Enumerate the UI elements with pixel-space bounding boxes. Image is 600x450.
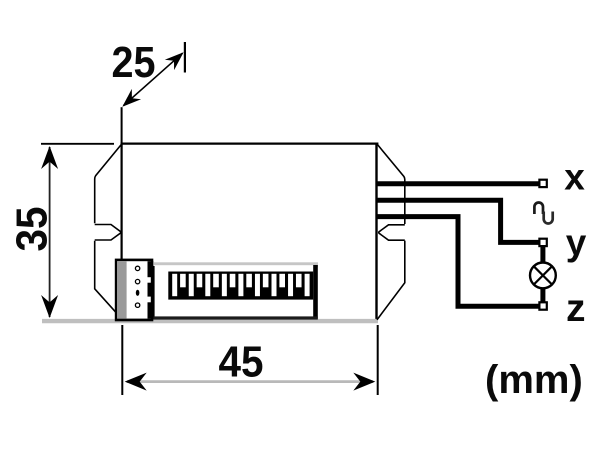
dimension 35 line — [49, 147, 51, 317]
module bottom edge (gray base line) — [42, 319, 378, 323]
dimension 25 diagonal line — [124, 53, 183, 105]
module body right edge — [375, 143, 377, 323]
dimension 45 right extension line — [377, 325, 379, 395]
terminal strip right edge — [313, 265, 318, 319]
wire to terminal y — [376, 200, 540, 242]
svg-text:25: 25 — [112, 38, 156, 87]
wire terminal y to lamp — [540, 247, 545, 264]
svg-text:45: 45 — [219, 338, 264, 387]
terminal comb base — [168, 272, 313, 300]
wire to terminal z — [376, 217, 540, 307]
terminal strip top highlight — [154, 262, 318, 267]
right flange lower edge — [377, 241, 405, 320]
terminal comb white slots (full height) — [172, 274, 309, 296]
svg-text:x: x — [564, 157, 585, 198]
dimension 25 upper arrowhead — [165, 52, 184, 70]
terminal strip body — [154, 265, 318, 318]
dimension 35 up arrowhead — [41, 146, 58, 169]
dimension 25 extension line (vertical, at module top-left corner) — [121, 107, 123, 143]
right mounting flange — [377, 144, 405, 224]
dimension 35 down arrowhead — [41, 295, 58, 318]
connector block outer — [115, 259, 154, 322]
svg-text:y: y — [566, 222, 587, 263]
left flange screw notch — [95, 225, 121, 241]
connector right tabs — [148, 261, 154, 277]
svg-text:(mm): (mm) — [485, 358, 583, 402]
connector pin holes — [135, 266, 139, 270]
AC mains symbol — [534, 203, 543, 215]
wire to terminal x — [376, 181, 540, 186]
dimension 45 right arrowhead — [353, 373, 375, 391]
left flange lower edge — [95, 241, 122, 319]
connector gray strip — [117, 261, 126, 318]
terminal strip left edge — [153, 266, 155, 318]
module body left edge — [120, 143, 122, 321]
dimension 35 top extension line — [41, 143, 114, 145]
dimension 25 lower arrowhead — [122, 89, 141, 107]
terminal strip bottom edge — [153, 316, 318, 319]
terminal z square — [539, 302, 546, 309]
terminal y square — [539, 239, 546, 246]
dimension 45 left arrowhead — [125, 373, 147, 391]
svg-text:35: 35 — [8, 207, 57, 252]
terminal x square — [539, 180, 546, 187]
dimension 25 upper tick — [184, 42, 186, 73]
module body top edge — [121, 143, 379, 145]
dimension 45 left extension line — [121, 325, 123, 395]
terminal comb white slots (top half) — [180, 274, 301, 288]
wire lamp to terminal z — [540, 288, 545, 303]
dimension 45 line (gray) — [127, 380, 373, 383]
lamp symbol — [530, 263, 556, 289]
svg-text:z: z — [566, 287, 586, 330]
left mounting flange — [95, 144, 122, 223]
connector block inner — [117, 261, 151, 318]
right flange screw notch — [379, 225, 405, 240]
